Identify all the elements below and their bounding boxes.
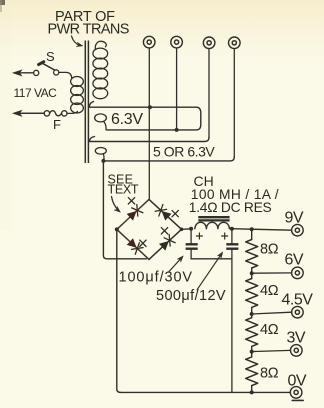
wire bridge DC- (left) down to 0V rail [117,229,121,392]
junction divider bottom / 0V rail [250,390,254,394]
junction choke output / C2 [230,227,234,231]
wire AC top to switch [23,72,34,74]
svg-text:3V: 3V [287,330,306,347]
svg-text:0V: 0V [288,373,307,390]
label 0V [288,373,307,390]
svg-text:500μf/12V: 500μf/12V [156,288,226,304]
wire terminal J4 to 5-or-6.3V bottom lead [233,49,235,157]
transformer secondary winding (top) [93,41,108,98]
svg-text:4Ω: 4Ω [260,283,279,299]
svg-text:100μf/30V: 100μf/30V [119,270,194,286]
label 4.5V [282,292,314,309]
svg-text:S: S [46,49,55,64]
label 100 MH/1A/ [191,187,279,202]
ground mark under 0V terminal [292,399,303,401]
diode D1 (top-left arm) [127,204,143,220]
transformer core [85,41,88,164]
label 100µf/30V [119,256,194,286]
x mark near D4 [161,228,167,234]
label S [46,49,55,64]
wire choke to 9V terminal [232,229,292,231]
diode D2 (top-right arm) [155,205,171,221]
wire AC bottom to fuse [23,112,45,114]
wire capacitor bus down to 0V rail [231,259,233,393]
wire 6V tap [252,272,292,274]
wire terminal J1 to 6.3V lead and rectifier [148,48,150,199]
AC input wire (bottom) with arrow [13,110,44,116]
x mark near D1 [128,198,134,204]
x mark near D2 [172,210,178,216]
wire 5-or-6.3V lead down to bridge AC (bottom) [103,161,146,259]
output terminal 4.5V [292,306,304,318]
AC input wire (top) with arrow [13,70,33,76]
secondary 5-or-6.3V winding leads [90,137,235,161]
wire capacitor negative bus [191,258,232,260]
svg-text:TEXT: TEXT [108,183,139,197]
svg-text:5 OR 6.3V: 5 OR 6.3V [153,144,215,160]
svg-text:8Ω: 8Ω [260,242,279,258]
terminal J1 [143,36,155,48]
wire R1 to R2 [251,268,253,279]
wire switch to primary [59,72,72,78]
x mark near D3 [140,240,146,246]
label 3V [287,330,306,347]
svg-text:6.3V: 6.3V [111,111,143,128]
wire bridge DC+ (right) to choke [182,228,192,231]
label R1 8Ω [260,242,279,258]
label R3 4Ω [260,322,279,338]
junction J2 wire / 6.3V bottom lead [175,128,179,132]
junction bridge left corner [115,227,119,231]
label 5 OR 6.3V [153,144,215,160]
switch S [34,62,59,76]
wire R3 to R4 [251,346,253,357]
resistor R3 4Ω [246,318,258,347]
capacitor C2 500µf/12V [222,229,239,259]
choke CH core [198,217,229,220]
svg-text:8Ω: 8Ω [260,366,279,382]
fuse F [44,111,67,116]
output terminal 0V [290,387,302,399]
capacitor C1 100µf/30V [186,229,203,259]
label 9V [285,210,304,227]
svg-text:1.4Ω DC RES: 1.4Ω DC RES [189,200,272,215]
svg-text:6V: 6V [285,252,304,269]
wire R4 to 0V rail [251,386,253,393]
junction divider top [250,227,254,231]
label 6V [285,252,304,269]
diode D4 (bottom-right arm) [159,234,175,250]
output terminal 3V [291,345,303,357]
junction bridge right corner [180,228,184,232]
junction J1 wire / 6.3V top lead [148,105,152,109]
wire fuse to primary [67,112,78,114]
label R4 8Ω [260,366,279,382]
junction 4.5V tap [250,312,254,316]
wire 3V tap [252,350,291,351]
wire terminal J3 to 5-or-6.3V top lead [208,49,210,138]
svg-text:F: F [53,117,61,132]
terminal J4 [229,37,241,49]
resistor R2 4Ω [246,279,258,308]
label F [53,117,61,132]
svg-text:117 VAC: 117 VAC [14,86,58,100]
label 117 VAC [14,86,58,100]
wire 4.5V tap [252,312,292,314]
svg-text:PWR TRANS: PWR TRANS [48,22,129,38]
diode D3 (bottom-left arm) [127,238,143,254]
bridge rectifier (diamond) [117,199,182,259]
terminal J2 [171,36,183,48]
resistor R1 8Ω [246,240,258,269]
wire R2 to R3 [251,307,253,317]
svg-text:9V: 9V [285,210,304,227]
junction 3V tap [250,350,254,354]
junction secondary lead to rectifier [101,159,105,163]
transformer primary winding [71,77,84,114]
junction choke input / C1 [189,227,193,231]
wire divider top [251,229,253,239]
wire 0V rail [120,391,290,393]
label R2 4Ω [260,283,279,299]
resistor R4 8Ω [246,357,258,386]
junction 6V tap [250,271,254,275]
svg-text:4.5V: 4.5V [282,292,314,309]
label PART OF PWR TRANS [48,9,129,47]
choke CH winding [195,222,230,228]
label 1.4 ohm DC RES [189,200,272,215]
secondary 6.3V winding leads [89,102,201,130]
wire terminal J2 to 6.3V lead [176,48,178,130]
terminal J3 [203,37,215,49]
label SEE TEXT [108,173,139,213]
label 6.3V [111,111,143,128]
svg-text:4Ω: 4Ω [260,322,279,338]
label 500µf/12V [156,252,226,304]
output terminal 6V [292,267,304,279]
label CH [194,173,214,189]
output terminal 9V [292,224,304,236]
